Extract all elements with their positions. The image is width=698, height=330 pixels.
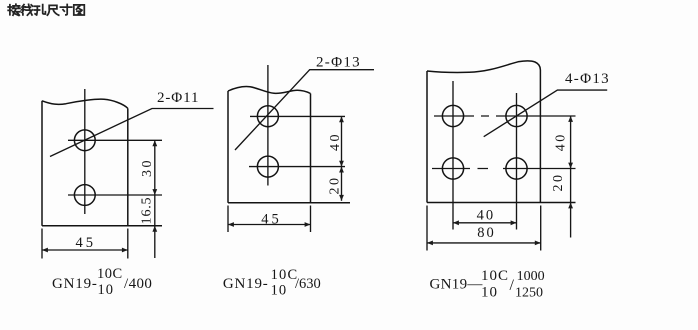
dimension line 45 [42,249,128,251]
arrow right at 127.8,250 [122,248,128,253]
plate P3 bottom edge with extension [427,202,576,204]
svg-text:GN19—: GN19— [430,277,484,293]
arrow left at 427,242.9 [427,241,433,246]
title 接线孔尺寸图 (drawn as strokes) [8,4,84,15]
label GN19-10C/10 1000/1250 [430,268,545,301]
svg-text:2-Φ11: 2-Φ11 [157,90,199,106]
hole H5 upper-left (Φ13) [442,105,463,126]
plate P1 bottom edge with extension [42,225,162,227]
arrow down at 166.6 [339,161,344,167]
dimension line vertical 40/20 [341,116,343,200]
plate P2 left edge [227,91,229,203]
hole H4 lower centerline [249,166,345,168]
svg-text:45: 45 [76,235,97,251]
dimension line 80 [427,242,541,244]
row centerline lower (dash-dot) [432,168,576,170]
svg-text:20: 20 [328,176,343,195]
column centerline right P3 [516,93,518,230]
leader line 2-Φ13 [235,70,374,150]
arrow up at 166.6 [339,167,344,173]
svg-text:10: 10 [271,283,288,299]
svg-text:20: 20 [551,173,566,192]
svg-text:GN19-: GN19- [52,276,98,292]
arrow down at 200.8 [339,195,344,201]
hole H8 lower-right (Φ13) [506,158,527,179]
arrow up at 116.4 [339,116,344,122]
arrow left at 228,224.5 [228,222,234,227]
svg-text:16.5: 16.5 [140,197,155,225]
char 线 [22,4,33,15]
dimension line 45 (middle) [228,224,311,226]
label GN19-10C/10/630 [223,267,321,299]
arrow left at 453,222.8 [453,220,459,225]
svg-text:80: 80 [477,225,496,241]
hole H3 upper (Φ13) [257,106,278,127]
plate P1 left edge [41,101,43,226]
plate P3 top wavy break edge [427,61,540,73]
svg-text:GN19-: GN19- [223,276,269,292]
extension line right for 45 (middle) [310,206,312,233]
hole column centerline P1 [84,89,86,214]
arrow up at 225.8 [152,226,157,232]
char 寸 [60,5,71,15]
svg-text:10C: 10C [481,268,509,284]
plate P1 right edge [127,108,129,226]
plate P2 bottom edge with extension [228,202,350,204]
char 接 [8,4,20,15]
leader line 4-Φ13 [484,90,608,137]
hole H1 upper centerline [68,139,162,141]
arrow right at 310.5,224.5 [305,222,311,227]
svg-text:40: 40 [477,207,496,223]
arrow left at 42,250 [42,248,48,253]
char 尺 [47,5,58,15]
svg-text:30: 30 [140,158,155,177]
dimension line 40 horizontal [453,222,517,224]
column centerline left P3 [452,81,454,230]
plate P1 top wavy break edge [42,99,128,108]
char 图 [74,5,85,15]
svg-text:40: 40 [554,132,569,151]
hole H1 upper (Φ11) [74,130,95,151]
hole H6 upper-right (Φ13) [506,105,527,126]
svg-text:4-Φ13: 4-Φ13 [565,71,610,87]
extension line left for 80 [426,206,428,251]
extension line left for 45 (middle) [227,206,229,233]
arrow up at 570.6,116 [568,116,573,122]
plate P2 right edge [310,94,312,203]
char 孔 [34,5,45,15]
hole H2 lower centerline [68,194,162,196]
arrow up at 140.3 [152,140,157,146]
arrow down at 195 [152,189,157,195]
label GN19-10C/10/400 [52,266,152,298]
svg-text:1000: 1000 [517,269,545,284]
plate P3 left edge [426,71,428,203]
hole H4 lower (Φ13) [257,156,278,177]
svg-text:45: 45 [261,211,282,227]
svg-text:40: 40 [328,132,343,151]
dimension line vertical 30/16.5 [154,140,156,258]
leader line 2-Φ11 [50,109,214,157]
hole column centerline P2 [267,65,269,186]
arrow down at 570.6,168.5 [568,163,573,169]
svg-text:2-Φ13: 2-Φ13 [316,55,361,71]
arrow up at 570.6,202.5 [568,203,573,209]
svg-text:10C: 10C [97,266,123,282]
svg-text:10: 10 [481,285,498,301]
svg-text:10: 10 [98,282,115,298]
hole H7 lower-left (Φ13) [442,158,463,179]
plate P3 right edge [539,70,541,203]
svg-text:/: / [510,277,515,294]
extension line left for 45 [41,229,43,259]
dimension line vertical 40/20 (right) [570,116,572,238]
svg-text:/630: /630 [295,276,321,292]
arrow right at 516.5,222.8 [511,220,517,225]
svg-text:/400: /400 [124,276,152,292]
extension line right for 80 [540,206,542,251]
plate P2 top wavy break edge [228,87,311,94]
hole H3 upper centerline [250,115,345,117]
hole H2 lower (Φ11) [74,185,95,206]
svg-text:1250: 1250 [515,286,543,301]
row centerline upper (dash-dot) [434,115,576,117]
extension line right for 45 [127,229,129,259]
arrow right at 540.7,242.9 [535,241,541,246]
